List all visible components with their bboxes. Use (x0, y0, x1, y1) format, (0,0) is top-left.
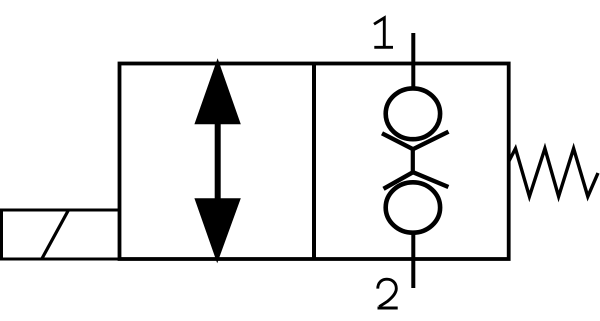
valve body outline (two position envelope) (120, 64, 509, 260)
solenoid diagonal stroke (42, 210, 69, 259)
check valve seat (bottom, inverted vee) (384, 172, 449, 189)
check valve seat (top, vee) (382, 132, 449, 150)
port 2 line (411, 231, 415, 288)
check valve ball (top) (386, 88, 440, 139)
port 1 line (411, 33, 415, 90)
arrow head down (194, 198, 240, 263)
arrow shaft (215, 121, 221, 201)
solenoid coil box (2, 210, 120, 259)
port 2 label (378, 279, 398, 308)
arrow head up (194, 58, 240, 124)
return spring (509, 149, 598, 197)
envelope divider line (312, 64, 316, 260)
port 1 label (374, 18, 393, 48)
check valve ball (bottom) (386, 182, 440, 232)
internal connector between check valves (411, 148, 415, 174)
